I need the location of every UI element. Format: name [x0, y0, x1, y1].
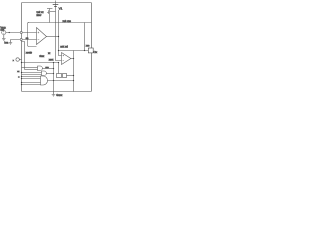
ground G1	[2, 35, 6, 41]
junction	[53, 62, 54, 63]
wire g1 out	[42, 68, 53, 70]
wire g4d	[22, 84, 41, 86]
IC outer border	[22, 3, 92, 92]
junction	[73, 80, 74, 81]
wire g3b	[22, 74, 42, 76]
svg-text:xck xxl: xck xxl	[60, 46, 68, 49]
pin P2	[20, 39, 22, 41]
junction b5	[21, 82, 22, 83]
wire gnd drop	[53, 63, 55, 92]
junction b6	[21, 84, 22, 85]
svg-text:bxa: bxa	[4, 42, 9, 45]
svg-text:x: x	[18, 76, 20, 78]
wire trim bus	[22, 62, 59, 64]
wire g1a	[22, 67, 38, 69]
pin box OUT	[88, 48, 93, 53]
wire rc out	[67, 75, 74, 77]
svg-text:Gnxx: Gnxx	[56, 93, 63, 97]
wire rail VB1	[56, 10, 62, 61]
wire IN-	[11, 39, 37, 41]
wire rail VB2	[59, 10, 62, 56]
svg-text:xcvx: xcvx	[49, 59, 54, 61]
gate G1	[38, 66, 43, 71]
pin circle E1	[16, 58, 19, 61]
wire: internal rail top edge	[28, 22, 92, 24]
wire g3a	[22, 72, 42, 74]
junction	[58, 36, 59, 37]
junction	[58, 62, 59, 63]
junction	[53, 73, 54, 74]
svg-text:xvo: xvo	[86, 45, 90, 47]
wire logic riser	[58, 63, 60, 74]
junction b2	[21, 72, 22, 73]
ground GND main	[52, 92, 56, 97]
junction b3	[21, 76, 22, 77]
wire g4 out	[48, 80, 74, 82]
gate G3	[42, 71, 47, 76]
svg-text:vbxx: vbxx	[39, 55, 45, 58]
op-amp U1	[37, 28, 47, 45]
resistor R1 box	[57, 74, 62, 78]
wire g1b	[25, 69, 38, 71]
op-amp U2	[62, 53, 71, 65]
junction	[73, 58, 74, 59]
wire g4b	[22, 78, 41, 80]
junction b1	[21, 62, 22, 63]
svg-text:Ox: Ox	[94, 50, 98, 54]
svg-text:xx: xx	[17, 71, 20, 73]
gate G4	[41, 76, 48, 85]
wire g4c	[22, 82, 41, 84]
wire feedback top	[84, 23, 86, 51]
junction	[84, 50, 85, 51]
wire IN+	[6, 32, 37, 34]
wire g4a	[22, 76, 41, 78]
svg-text:x: x	[13, 60, 15, 62]
block A1 outline	[28, 23, 37, 47]
junction	[9, 32, 10, 33]
capacitor C1 box	[63, 74, 67, 78]
wire gate link	[50, 11, 56, 13]
svg-text:xcvxb: xcvxb	[26, 52, 33, 55]
ground G2	[9, 40, 12, 45]
wire U1 out	[47, 36, 59, 38]
wire OUT	[59, 50, 89, 52]
wire fb jog	[22, 42, 25, 70]
junction b4	[21, 78, 22, 79]
junction	[73, 75, 74, 76]
transistor M1	[47, 8, 52, 10]
svg-text:V1: V1	[59, 7, 63, 11]
wire out riser	[73, 51, 75, 92]
source V1 circle	[2, 30, 6, 34]
svg-text:xvb xxc: xvb xxc	[63, 20, 72, 23]
junction	[58, 50, 59, 51]
battery V2 VDD	[55, 1, 57, 10]
svg-text:xbxv: xbxv	[36, 14, 42, 17]
junction	[53, 68, 54, 69]
svg-text:xx: xx	[48, 53, 51, 55]
pin P1	[20, 32, 22, 34]
junction	[53, 80, 54, 81]
wire U2 out	[71, 58, 74, 60]
wire g3 out	[46, 73, 53, 75]
